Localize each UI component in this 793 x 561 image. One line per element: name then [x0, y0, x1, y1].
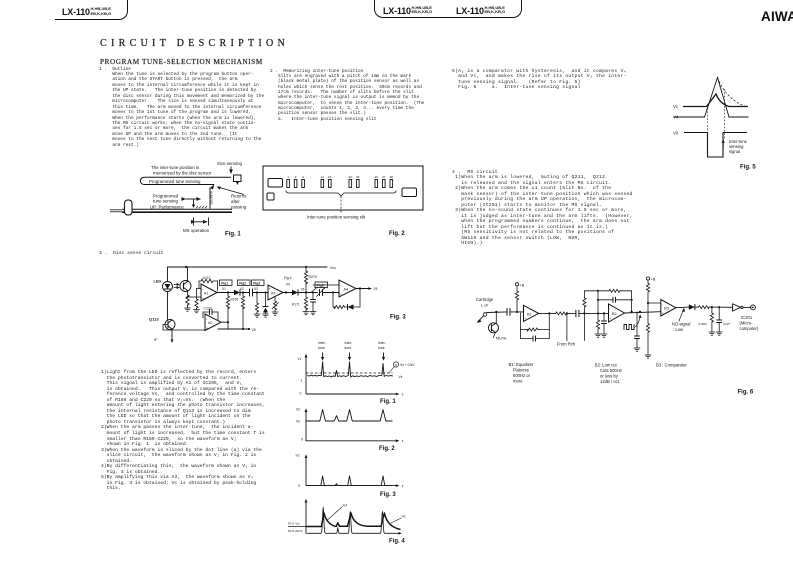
divider resistor to ground — [646, 312, 649, 355]
resistor R580 to ground — [710, 307, 713, 332]
column 3 paragraph 6 — [452, 69, 627, 90]
From Rch branch — [557, 313, 576, 346]
svg-text:V4: V4 — [286, 283, 290, 287]
svg-text:V5: V5 — [301, 288, 305, 292]
svg-text:IC201: IC201 — [741, 315, 753, 320]
svg-text:0: 0 — [300, 392, 302, 396]
fig1: caption — [380, 399, 396, 405]
header tab center — [374, 0, 522, 18]
capacitor to ground at V5 node — [311, 292, 316, 312]
label: R169 — [231, 298, 239, 302]
resistor below phototransistor — [186, 295, 190, 308]
main heading — [100, 38, 289, 49]
label: C227 — [723, 322, 731, 326]
section 3 heading — [99, 251, 164, 256]
slits group 4 — [375, 180, 393, 188]
clamp diode below V3 line — [263, 292, 268, 315]
diode V4 node — [292, 290, 318, 295]
fig2: Vs label — [296, 420, 300, 424]
svg-text:after: after — [231, 199, 240, 204]
svg-text:V1: V1 — [402, 515, 406, 519]
svg-text:Fig. 1: Fig. 1 — [380, 399, 396, 405]
svg-text:L ch: L ch — [481, 304, 488, 308]
ground — [310, 312, 316, 315]
label: MUTE — [496, 337, 507, 341]
label box Fig1 / node V1 — [220, 280, 233, 291]
svg-text:Fig. 3: Fig. 3 — [390, 315, 406, 321]
label: V5 node bottom — [252, 328, 256, 332]
B2 top feedback resistor — [584, 289, 631, 311]
base network to A2 — [163, 325, 205, 331]
svg-text:V2: V2 — [240, 287, 244, 291]
svg-text:R171: R171 — [292, 303, 300, 307]
arrow: left-right tune sensing travel — [186, 199, 201, 208]
fig1: slice dashed line a — [306, 372, 393, 374]
svg-text:V0: V0 — [673, 130, 679, 135]
series capacitor — [507, 309, 524, 316]
svg-text:A3: A3 — [271, 291, 275, 295]
slits group 2 — [321, 180, 331, 188]
figure 6: MS circuit block diagram — [460, 270, 770, 398]
label: R270 — [309, 275, 317, 279]
label: B2 low cut — [595, 362, 622, 384]
label: IC201 microcomputer — [740, 315, 759, 331]
resistor below V3 — [255, 293, 258, 315]
ground — [601, 334, 607, 337]
hatch marks on rail — [196, 206, 207, 208]
fig4: fraction bar — [288, 526, 306, 528]
wire: A4 output — [356, 287, 371, 289]
resistor below V2 — [241, 293, 244, 330]
svg-text:Inter-tune position sensing sl: Inter-tune position sensing slit — [307, 215, 366, 220]
svg-text:Inter-: Inter- — [318, 341, 326, 345]
ground — [194, 310, 200, 313]
fig3: x axis — [306, 484, 405, 488]
label: Fig. 1 — [225, 232, 241, 238]
svg-text:B1: B1 — [527, 312, 532, 316]
dashed pointer — [340, 196, 342, 214]
svg-text:NO-signal: NO-signal — [672, 322, 691, 327]
svg-text:A1: A1 — [204, 292, 208, 296]
svg-text:+: + — [269, 287, 271, 291]
svg-text:15: 15 — [328, 175, 332, 179]
squiggle signal symbol — [624, 314, 642, 329]
svg-text:0: 0 — [301, 438, 303, 442]
svg-text:3: 3 — [302, 175, 304, 179]
AGC feedback resistor — [199, 279, 218, 291]
cap beside — [602, 312, 607, 334]
ground — [254, 314, 260, 317]
svg-text:A2: A2 — [208, 321, 212, 325]
svg-text:C227: C227 — [723, 322, 731, 326]
sub heading — [100, 58, 263, 66]
label: V5 output — [374, 287, 378, 291]
svg-text:A4: A4 — [344, 287, 349, 291]
svg-text:: Low: : Low — [673, 327, 684, 332]
op-amp B2 — [609, 304, 625, 322]
label: Fig. 5 — [740, 165, 756, 171]
transistor Q113 — [163, 320, 175, 337]
svg-text:Returns: Returns — [231, 194, 247, 199]
fig4: sharp spikes V1 (thin) — [307, 507, 402, 535]
ground — [185, 308, 191, 311]
svg-text:From Rch: From Rch — [557, 342, 576, 347]
label: B3 comparator — [656, 362, 687, 367]
svg-text:R171+R270: R171+R270 — [288, 529, 303, 533]
label box Fig5 / node V5 — [301, 282, 328, 292]
label box Fig2 / node V2 — [238, 280, 251, 294]
svg-text:+: + — [662, 311, 664, 315]
svg-text:-: - — [662, 302, 663, 306]
op-amp A1 — [201, 284, 217, 301]
svg-text:more: more — [513, 378, 523, 383]
AIWA logo — [761, 9, 793, 24]
svg-text:-: - — [206, 317, 207, 321]
ground — [595, 334, 601, 337]
wire: A2 output to V5 line — [218, 321, 250, 330]
fig2: x axis — [306, 439, 405, 443]
fig4: y axis — [305, 499, 308, 534]
resistor R270 to Vcc — [304, 267, 307, 294]
ground — [263, 314, 269, 317]
fig4: V1 leader label — [391, 515, 406, 524]
label: Vcc — [330, 266, 336, 270]
svg-text:14: 14 — [321, 175, 325, 179]
diode V1-V2 — [234, 290, 250, 295]
mute transistor — [489, 312, 499, 338]
label: Q113 — [149, 317, 159, 322]
figure 3: disc sense circuit schematic — [145, 258, 425, 346]
ground — [303, 312, 309, 315]
svg-text:V3: V3 — [296, 454, 300, 458]
label: V4 — [673, 115, 679, 120]
small hole left — [267, 193, 274, 200]
slits group 1 — [287, 180, 305, 188]
label: V0 — [673, 130, 679, 135]
svg-text:Inter-: Inter- — [378, 341, 386, 345]
label: Fig. 2 — [389, 231, 405, 237]
ground — [634, 348, 640, 351]
svg-text:Vs: Vs — [296, 420, 300, 424]
svg-text:-: - — [340, 283, 341, 287]
svg-text:+B: +B — [651, 278, 656, 282]
label: Inter-tune sensing signal — [729, 139, 748, 154]
fig3: zero — [298, 484, 300, 488]
svg-text:or less by: or less by — [600, 373, 619, 378]
op-amp A3 — [268, 285, 283, 300]
waveform figures 1-4 — [288, 332, 423, 547]
svg-text:R169: R169 — [231, 298, 239, 302]
sensor head symbol — [234, 175, 242, 185]
svg-text:(Micro-: (Micro- — [740, 321, 754, 326]
+B supply 2 — [646, 277, 655, 324]
label: Programmed tune sensing / UP Performance — [150, 193, 184, 209]
svg-text:Programmed tune sensing: Programmed tune sensing — [149, 179, 201, 184]
series resistor — [699, 306, 733, 309]
label: IF arrow — [154, 336, 173, 343]
trace V4 — [674, 78, 749, 118]
input plug — [477, 313, 487, 323]
svg-text:passing: passing — [231, 204, 247, 209]
B2 feedback capacitor — [597, 290, 633, 314]
svg-text:Vs: Vs — [399, 375, 403, 379]
series capacitor V2-V3 — [250, 289, 269, 296]
label: Programmed tune sensing (capsule) — [149, 179, 201, 184]
dashed edge markers — [708, 89, 725, 140]
wire: input line — [487, 311, 507, 313]
svg-text:B3: B3 — [664, 307, 669, 311]
diode after B3 — [689, 304, 699, 309]
svg-text:Flatness: Flatness — [513, 367, 529, 372]
series capacitor to B2 — [576, 310, 609, 316]
resistor R171 to ground — [304, 293, 307, 312]
svg-text:T: T — [402, 393, 405, 397]
feedback capacitor C229 — [203, 310, 218, 321]
slits group 3 — [349, 180, 359, 188]
svg-text:computer): computer) — [740, 326, 759, 331]
label: R171 — [292, 303, 300, 307]
fig2: caption — [379, 446, 395, 452]
svg-text:V1: V1 — [298, 357, 302, 361]
rest hole left — [268, 179, 283, 188]
label: Size sensing — [217, 161, 242, 166]
svg-text:47: 47 — [382, 175, 386, 179]
svg-text:Fig. 6: Fig. 6 — [738, 390, 754, 396]
brace under slits — [286, 191, 396, 197]
ground — [272, 312, 278, 315]
fig1: pointer arrows — [323, 353, 384, 358]
label: Returns after passing — [231, 194, 247, 210]
fig1: noisy trace V1 — [307, 362, 393, 377]
svg-text:Size sensing: Size sensing — [217, 161, 242, 166]
trace V0 pulse — [684, 133, 747, 158]
input filter cap 1 — [635, 312, 640, 348]
svg-text:1: 1 — [300, 379, 302, 383]
svg-text:+B: +B — [520, 283, 525, 287]
series resistor after B1 — [556, 312, 576, 315]
svg-text:32: 32 — [349, 175, 353, 179]
B3 minus input wire — [648, 302, 661, 304]
slit numbers — [287, 175, 393, 179]
svg-text:Inter-: Inter- — [345, 341, 353, 345]
svg-text:B1: Equalizer: B1: Equalizer — [509, 362, 535, 367]
svg-text:Fig. 5: Fig. 5 — [740, 165, 756, 171]
svg-text:signal: signal — [729, 149, 740, 154]
label: inter-tune position note — [151, 165, 212, 175]
wire: B3 output — [676, 306, 689, 309]
fig4: caption — [389, 539, 405, 545]
label: inter-tune position sensing slit — [307, 215, 366, 220]
fig1: y axis — [298, 354, 308, 394]
wire: B2 output — [625, 311, 661, 313]
svg-text:V4: V4 — [343, 504, 347, 508]
ground — [709, 332, 715, 335]
svg-text:tune sensing: tune sensing — [153, 199, 178, 204]
MS operation span ticks — [194, 218, 209, 226]
svg-text:C229: C229 — [204, 307, 212, 311]
svg-text:Vcc: Vcc — [330, 266, 336, 270]
svg-text:Fig3: Fig3 — [253, 281, 260, 285]
label: Fig. 6 — [738, 390, 754, 396]
op-amp A4 — [339, 280, 356, 297]
+B supply 1 — [515, 283, 524, 313]
svg-text:+: + — [206, 326, 208, 330]
fig2: trace V2 — [306, 410, 393, 421]
svg-text:48: 48 — [390, 175, 394, 179]
B1 feedback resistor loop — [521, 313, 550, 331]
svg-text:DOWN: DOWN — [209, 191, 214, 204]
label box Fig3 / node V3 — [252, 280, 265, 294]
svg-text:memorized by the disc sensor: memorized by the disc sensor — [153, 170, 212, 175]
B1 feedback capacitor loop — [521, 330, 550, 342]
svg-text:R 580: R 580 — [699, 322, 707, 326]
svg-text:+: + — [609, 317, 611, 321]
label: Cartridge / L ch — [476, 297, 494, 308]
figure 2: position sensor mask plate — [255, 160, 430, 240]
fig3: y axis — [296, 454, 308, 486]
wire: DOWN vertical with arrowhead to capsule — [210, 184, 215, 208]
wire: A3 output — [283, 291, 292, 293]
inverter to microcomputer — [733, 304, 756, 311]
svg-text:V2: V2 — [296, 408, 300, 412]
column 1 bottom numbered block — [101, 370, 265, 492]
column 1 paragraph 1 — [99, 67, 264, 149]
svg-text:B2: B2 — [612, 312, 617, 316]
fig3: trace V3 — [306, 476, 392, 486]
svg-text:46: 46 — [375, 175, 379, 179]
fig4: V4 leader label — [327, 504, 348, 521]
svg-text:tune: tune — [345, 346, 352, 350]
roller knob — [125, 200, 133, 215]
svg-text:AGC: AGC — [203, 276, 212, 280]
op-amp A2 — [205, 314, 221, 331]
dashed peak decay — [718, 78, 747, 107]
rail: arm track bar — [110, 209, 232, 212]
column 2 paragraph 2 — [270, 69, 424, 122]
ground — [716, 332, 722, 335]
svg-text:Vs + 0.6V: Vs + 0.6V — [400, 363, 415, 367]
svg-text:-: - — [609, 307, 610, 311]
ground — [645, 355, 651, 358]
svg-text:tune: tune — [378, 346, 385, 350]
label: AGC — [203, 276, 212, 280]
svg-text:B3 : Comparator: B3 : Comparator — [656, 362, 687, 367]
B2 input shunt resistors — [583, 291, 586, 341]
label: LED — [154, 280, 162, 284]
svg-text:LED: LED — [154, 280, 162, 284]
label: Fig. 3 — [390, 315, 406, 321]
figure 1: tune-selection mechanism diagram — [108, 152, 272, 242]
fig1: Vs label — [399, 375, 403, 379]
fig2: y axis — [296, 408, 307, 441]
svg-text:T: T — [402, 440, 405, 444]
capacitor C227 to ground — [717, 307, 722, 332]
svg-text:R270: R270 — [309, 275, 317, 279]
svg-text:Programmed: Programmed — [153, 193, 179, 198]
trimmer resistor below A3 — [272, 297, 279, 312]
svg-text:Fig. 1: Fig. 1 — [225, 232, 241, 238]
label: VC — [673, 104, 678, 109]
svg-text:T: T — [402, 484, 405, 488]
wire: minus input line to A4 — [313, 284, 339, 286]
svg-text:500Hz or: 500Hz or — [513, 373, 531, 378]
hysteresis feedback: resistor + diode — [333, 289, 360, 310]
svg-text:1: 1 — [287, 175, 289, 179]
svg-text:MUTE: MUTE — [496, 337, 507, 341]
svg-text:V5: V5 — [374, 287, 378, 291]
plate outline — [263, 166, 423, 210]
arrow: sensing edge — [722, 139, 725, 148]
svg-text:a: a — [395, 363, 397, 367]
svg-text:33: 33 — [356, 175, 360, 179]
svg-text:+: + — [340, 293, 342, 297]
Vcc rail — [168, 266, 328, 268]
op-amp B1 — [524, 305, 539, 321]
wire: size-sensing arrow — [230, 167, 232, 174]
label: B1 equalizer — [509, 362, 535, 384]
svg-text:+: + — [524, 317, 526, 321]
wire: B1 output — [539, 312, 556, 314]
svg-text:0: 0 — [298, 484, 300, 488]
svg-text:R171·Vcc: R171·Vcc — [288, 522, 300, 526]
fig4: envelope V4 (thick) — [306, 513, 401, 530]
svg-text:Fig. 2: Fig. 2 — [389, 231, 405, 237]
svg-text:UP: Performance: UP: Performance — [150, 204, 184, 209]
svg-text:2: 2 — [295, 175, 297, 179]
phototransistor Q — [180, 267, 191, 295]
LED D (photo emitter) — [163, 267, 173, 320]
fig2: zero — [301, 438, 303, 442]
op-amp B3 — [661, 300, 676, 317]
trace VC — [683, 94, 748, 107]
svg-text:V1: V1 — [222, 287, 226, 291]
rest hole right — [402, 188, 417, 197]
light arrows — [174, 284, 179, 289]
labels: Fig 4 / V4 — [284, 276, 292, 287]
figure 5: inter-tune sensing waveforms — [660, 65, 793, 175]
fig1: axis numbers — [300, 379, 303, 396]
label: C229 — [204, 307, 212, 311]
resistor to ground at A1 input — [195, 299, 198, 310]
leader: returns after passing — [217, 187, 245, 195]
wire: A1 output to V1 node — [217, 291, 234, 293]
svg-text:Fig. 2: Fig. 2 — [379, 446, 395, 452]
svg-text:B2: Low cut: B2: Low cut — [595, 362, 618, 367]
capsule: programmed tune sensing path — [140, 177, 231, 184]
svg-text:-: - — [524, 308, 525, 312]
svg-text:Fig. 3: Fig. 3 — [380, 492, 396, 498]
fig1: inter-tune labels — [318, 341, 386, 350]
label: R580 — [699, 322, 707, 326]
header tab left — [55, 0, 128, 20]
svg-text:Fig 4: Fig 4 — [284, 276, 292, 280]
svg-text:MS operation: MS operation — [183, 228, 210, 233]
svg-text:+: + — [202, 297, 204, 301]
fig4: divider formula labels — [288, 522, 303, 534]
fig1: circled B label — [390, 362, 416, 373]
svg-text:Fig1: Fig1 — [221, 281, 228, 285]
svg-text:tune: tune — [318, 346, 325, 350]
wire to A1 input — [187, 289, 202, 300]
svg-text:Fig. 4: Fig. 4 — [389, 539, 405, 545]
svg-text:V5: V5 — [252, 328, 256, 332]
svg-text:Vc: Vc — [673, 104, 678, 109]
fig3: caption — [380, 492, 396, 498]
label: NO-signal Low — [672, 308, 691, 332]
svg-text:IF: IF — [154, 338, 158, 342]
svg-text:Q113: Q113 — [149, 317, 159, 322]
svg-text:-: - — [202, 287, 203, 291]
